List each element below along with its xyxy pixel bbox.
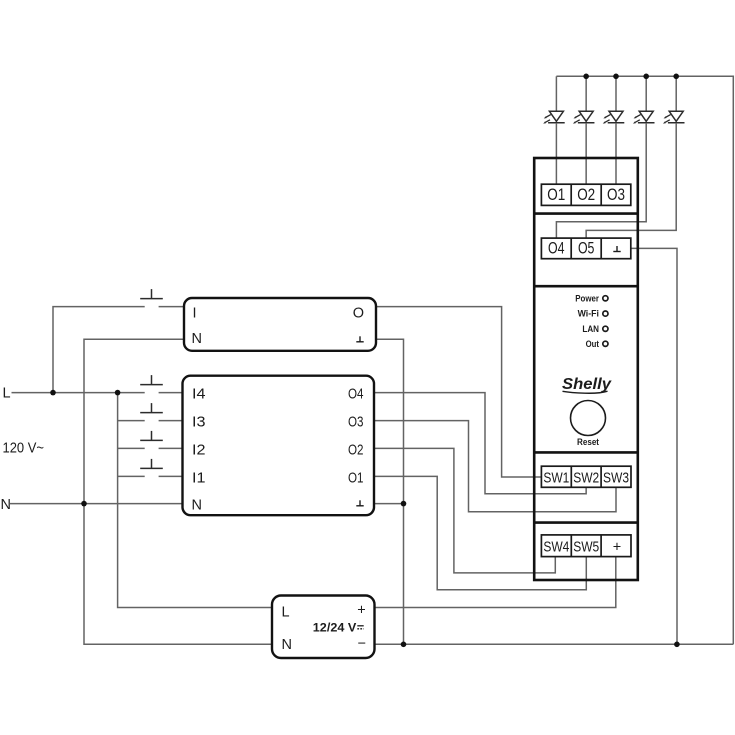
- svg-text:I1: I1: [192, 471, 206, 487]
- Reset button: [571, 401, 606, 436]
- wire D4 to O4: [556, 123, 646, 238]
- junction L at x117: [115, 390, 121, 396]
- U1 separator 3: [534, 451, 638, 454]
- svg-text:O4: O4: [348, 387, 364, 403]
- wire S5 to U3.I1: [159, 475, 183, 477]
- svg-text:O5: O5: [578, 240, 595, 258]
- U1 separator 2: [534, 285, 638, 288]
- svg-text:SW4: SW4: [543, 540, 569, 556]
- svg-text:O3: O3: [348, 415, 364, 431]
- svg-text:12/24 V: 12/24 V: [313, 623, 357, 635]
- svg-text:L: L: [282, 605, 290, 621]
- switch S4: [140, 431, 163, 441]
- svg-text:Out: Out: [586, 339, 599, 349]
- svg-text:O3: O3: [607, 186, 625, 204]
- svg-text:O2: O2: [577, 186, 595, 204]
- U2 ground pin symbol: [356, 336, 363, 342]
- PS1 DC symbol: [357, 626, 363, 629]
- svg-text:−: −: [358, 636, 366, 652]
- relay box U3: [183, 376, 375, 516]
- wire U3.O2 to SW4: [374, 448, 555, 573]
- wire L stub to S3: [118, 420, 145, 422]
- wire U2.O to SW1: [376, 307, 541, 477]
- wire PS1 plus to U1 plus terminal: [375, 557, 616, 608]
- svg-text:120 V~: 120 V~: [3, 441, 45, 457]
- svg-text:+: +: [357, 603, 365, 619]
- svg-text:I4: I4: [192, 387, 206, 403]
- wire L line: [12, 392, 145, 394]
- switch S1: [140, 289, 163, 299]
- wire U2.N to N line and PS1: [84, 339, 272, 644]
- LED D4: [633, 76, 655, 123]
- svg-text:N: N: [1, 497, 11, 513]
- wire N line: [10, 503, 183, 505]
- terminal strip SW4 SW5 plus: [541, 535, 631, 557]
- svg-text:+: +: [613, 540, 621, 556]
- svg-text:I3: I3: [192, 415, 206, 431]
- junction N at x84: [81, 501, 87, 507]
- svg-text:I: I: [193, 306, 197, 322]
- LED D1: [543, 76, 565, 123]
- svg-text:N: N: [282, 637, 292, 653]
- svg-text:N: N: [192, 498, 202, 514]
- terminal strip O4 O5 gnd: [541, 238, 630, 259]
- svg-text:L: L: [3, 386, 11, 402]
- terminal strip SW1 SW2 SW3: [541, 466, 631, 487]
- svg-text:O: O: [353, 306, 364, 322]
- svg-text:SW3: SW3: [603, 471, 629, 487]
- U3 ground pin symbol: [356, 500, 363, 506]
- svg-text:SW1: SW1: [543, 471, 569, 487]
- svg-text:O1: O1: [348, 471, 364, 487]
- wire U1 ground terminal to minus bus: [631, 248, 677, 644]
- svg-text:Power: Power: [575, 293, 599, 303]
- switch S2: [140, 375, 163, 385]
- svg-text:Reset: Reset: [577, 437, 599, 447]
- wire U2 ground down to minus bus: [376, 339, 404, 644]
- terminal ground symbol: [613, 246, 620, 252]
- junction minus bus at x677: [674, 642, 680, 648]
- svg-text:SW5: SW5: [573, 540, 599, 556]
- wire U3 ground stub: [374, 503, 404, 505]
- wire bottom minus bus: [375, 643, 734, 645]
- wire top supply bus: [556, 76, 733, 644]
- junction top bus at D3: [613, 74, 619, 80]
- LED D3: [603, 76, 625, 123]
- junction top bus at D5: [673, 74, 679, 80]
- svg-text:SW2: SW2: [573, 471, 599, 487]
- U1 separator 1: [534, 212, 638, 215]
- wire U3.O3 to SW3: [374, 421, 616, 512]
- junction top bus at D2: [583, 74, 589, 80]
- junction minus bus at x403: [401, 642, 407, 648]
- wire L feed to PS1: [118, 393, 272, 608]
- switch S3: [140, 403, 163, 413]
- wire D2 to O2: [585, 123, 587, 184]
- wire L feed to switch S1: [53, 307, 145, 393]
- device U1 outline: [534, 158, 638, 580]
- wire S3 to U3.I3: [159, 420, 183, 422]
- svg-text:N: N: [192, 331, 202, 347]
- U1 separator 4: [534, 521, 638, 524]
- wire U3.O4 to SW2: [374, 393, 586, 494]
- terminal strip O1 O2 O3: [541, 184, 630, 205]
- wire L stub to S4: [118, 447, 145, 449]
- junction L at x53: [50, 390, 56, 396]
- switch S5: [140, 459, 163, 469]
- wire D1 to O1: [555, 123, 557, 184]
- LED D2: [573, 76, 595, 123]
- wire D5 to O5: [586, 123, 676, 238]
- wire U3.O1 to SW5: [374, 476, 586, 589]
- relay box U2: [184, 298, 376, 351]
- wire S2 to U3.I4: [159, 392, 183, 394]
- svg-text:I2: I2: [192, 443, 206, 459]
- wire L stub to S5: [118, 475, 145, 477]
- wire S4 to U3.I2: [159, 447, 183, 449]
- svg-text:O1: O1: [547, 186, 565, 204]
- LED D5: [663, 76, 685, 123]
- svg-text:Wi-Fi: Wi-Fi: [578, 309, 599, 319]
- svg-text:LAN: LAN: [582, 324, 599, 334]
- svg-text:O2: O2: [348, 443, 364, 459]
- power supply PS1: [272, 596, 375, 659]
- wire S1 to U2.I: [159, 306, 184, 308]
- svg-text:O4: O4: [548, 240, 565, 258]
- junction top bus at D4: [643, 74, 649, 80]
- svg-text:Shelly: Shelly: [562, 376, 612, 393]
- Shelly logo: [562, 376, 612, 393]
- junction U3 ground node: [401, 501, 407, 507]
- wire D3 to O3: [615, 123, 617, 184]
